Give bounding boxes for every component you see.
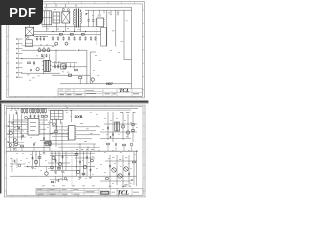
transistor Q2 [118, 174, 122, 178]
low cluster C19 [91, 78, 94, 81]
wire p2 mid h1 [40, 140, 69, 142]
bd labels [76, 148, 93, 151]
wire v3 to v4 [124, 59, 132, 61]
wire p2 top bus [7, 107, 139, 109]
wire bc h2 [48, 162, 70, 164]
p2 connector arrows [8, 125, 10, 143]
optocoupler U4 [61, 64, 66, 69]
electrolytic C20 [9, 132, 12, 135]
resistor network RN2 [51, 111, 64, 120]
U2 left fan [50, 126, 69, 136]
dashed drop x96 [96, 29, 98, 45]
transistor Q3 [124, 167, 128, 171]
U1 right fanout [40, 120, 52, 134]
rectifier diode D6 [43, 48, 46, 52]
cap C27 [112, 133, 114, 135]
wires bd verts [77, 151, 91, 176]
title block P1 text marks [60, 90, 140, 96]
wire low bus [60, 83, 132, 85]
wire under input row [42, 26, 84, 28]
title block P2 cell fills [37, 189, 72, 195]
wire bb v1 [32, 151, 34, 166]
page 2 sheet border outer [5, 105, 146, 197]
svg-text:DXB: DXB [75, 115, 83, 119]
electrolytic C32 [52, 157, 55, 160]
small marks bottom left [27, 75, 40, 81]
pre-bus comps [9, 142, 47, 151]
wire p2 left v1 [9, 114, 11, 147]
wires bc verts [52, 151, 66, 170]
res R18 [133, 161, 136, 163]
wire p2 left h2 [7, 147, 50, 149]
top row to bus drops [47, 23, 80, 32]
diode D12 [131, 179, 133, 181]
cap C23 [22, 135, 24, 137]
snubber C14 [33, 61, 35, 63]
wire low stub1 [79, 79, 81, 84]
page separator shadow [0, 100, 148, 101]
title block P1 outline [58, 89, 142, 97]
resistor bank RN1 [11, 108, 46, 119]
U1 left fanout [10, 120, 27, 134]
pre-bus right comps [107, 143, 133, 151]
cap C22 [18, 127, 20, 129]
p2 top right marks [120, 111, 136, 114]
ground symbols [13, 149, 125, 188]
wire bb v2 [35, 151, 37, 166]
dashed section divider [71, 150, 73, 186]
snubber capacitor C2 [92, 19, 94, 21]
value labels page 2 [10, 110, 138, 184]
wire vertical v1 [106, 10, 108, 46]
standby transformer T2 [42, 60, 51, 71]
relay K1 [25, 25, 34, 39]
wire p2 left v4 [21, 114, 23, 140]
cap C34 [55, 159, 57, 161]
wire xfmr top [21, 58, 44, 60]
cap row wire [34, 36, 48, 38]
electrolytic C37 [83, 165, 86, 168]
wire p2 r v5 [132, 112, 134, 142]
marks above title block [42, 185, 95, 188]
res R19 [106, 178, 109, 180]
electrolytic C36 [76, 170, 79, 173]
svg-text:TCL: TCL [119, 88, 130, 94]
rectifier diode D5 [38, 48, 41, 52]
wire p2 left h6 [8, 142, 24, 144]
wire bd h2 [10, 175, 137, 177]
wire p2 left h4 [8, 130, 24, 132]
bus2 hanging caps [52, 36, 97, 40]
wire mid row upper [22, 45, 57, 47]
page 2 border grid ticks [5, 105, 145, 197]
au labels [112, 157, 128, 185]
cap C26 [107, 127, 109, 129]
snubber wires [84, 10, 97, 27]
left page edge bar [0, 0, 1, 194]
page 1 sheet border inner [9, 4, 143, 97]
wire au h1 [105, 160, 137, 162]
wire net A [79, 49, 87, 51]
wire bus2 a [34, 31, 101, 33]
wire p2 mid bus [7, 150, 139, 152]
p2 center labels [80, 123, 93, 142]
wire top bus [44, 6, 132, 8]
wire left of DXB [71, 110, 73, 122]
connector J2 [46, 141, 51, 146]
wire vertical v3 [123, 10, 125, 59]
diode D11 [110, 136, 112, 138]
bank row labels [65, 107, 72, 111]
cap C40 [86, 156, 88, 158]
wire low stub2 [92, 81, 94, 84]
sheet note above title [123, 185, 131, 188]
sec drops [55, 63, 75, 68]
filter cap C13 [46, 54, 48, 56]
low cluster R4 [79, 77, 82, 79]
wire p2 mid bus b [50, 152, 95, 154]
snubber R2 [28, 62, 31, 64]
line filter FL1 [42, 11, 52, 25]
wires au verts [110, 152, 134, 185]
wire mid row [22, 49, 77, 51]
wire right rail [136, 150, 138, 186]
net arrow A [78, 49, 80, 51]
wire vertical v4 [131, 7, 133, 88]
RN2 drops [48, 120, 61, 131]
wire bc h3 [50, 170, 80, 172]
wire au h2 [100, 180, 131, 182]
main transformer T1 [73, 9, 81, 28]
snubber capacitor C1 [88, 19, 90, 21]
title block P2 rows [36, 191, 99, 193]
value labels page 1 [36, 8, 120, 76]
res R10 [49, 143, 52, 145]
cap C41 [90, 169, 92, 171]
lower left extras [10, 158, 26, 172]
wire vertical v5 [86, 50, 88, 84]
thermistor box [25, 36, 32, 47]
cap C35 [62, 156, 64, 158]
PWM IC U3 [96, 16, 105, 27]
sense R3 [75, 69, 78, 71]
wire p2 top bus b [48, 109, 131, 111]
title block P2 text marks [38, 189, 140, 194]
res R15 [58, 167, 61, 169]
startup diode D8 [30, 69, 32, 71]
caps under bank [30, 115, 48, 118]
res R14 [51, 167, 54, 169]
junction xfmr [43, 73, 44, 74]
wire bus2 b [34, 33, 101, 35]
bus2 inline resistors [59, 33, 84, 35]
PDF badge [0, 0, 43, 25]
title block P2 outline [36, 188, 143, 195]
cap C39 [79, 161, 81, 163]
electrolytic C15 [36, 68, 39, 71]
secondary cap C16 [54, 65, 56, 67]
wire sec1 [52, 66, 87, 68]
wire p2 mid v4 [61, 122, 63, 151]
wire sec2 [52, 74, 90, 76]
res R16 [75, 154, 78, 156]
page 1 sheet border outer [7, 2, 145, 98]
electrolytic C31 [34, 160, 37, 163]
cap C42 [109, 165, 111, 167]
svg-text:TCL: TCL [117, 190, 129, 197]
wire p2 mid h2 [40, 133, 69, 135]
page 1 border grid ticks [7, 2, 144, 98]
wire p2 r v4 [127, 114, 129, 138]
wire bb v3 [39, 151, 41, 166]
main IC U1 [27, 119, 41, 136]
cap row caps [36, 36, 45, 41]
transistor Q1 [112, 168, 116, 172]
U2 right fanout [76, 127, 100, 139]
logo box dark [100, 191, 109, 195]
electrolytic C44 [45, 172, 48, 175]
top bus stubs right [98, 10, 119, 15]
wire vertical v6 [89, 52, 91, 84]
electrolytic C25 [55, 130, 58, 133]
wire top bus stubs [47, 4, 77, 7]
bridge rectifier BD1 [62, 9, 70, 23]
wire right loop top [85, 9, 132, 11]
off-page connector arrows [16, 38, 22, 78]
cap C30 [32, 157, 34, 159]
svg-text:NO7: NO7 [106, 82, 113, 86]
wire v6 top [90, 51, 96, 53]
res R13 [38, 157, 41, 159]
res R11 [132, 124, 135, 126]
regulator U5 [68, 74, 71, 76]
wire p2 r v3 [122, 112, 124, 140]
p2 left junctions [9, 122, 22, 144]
electrolytic C38 [91, 159, 94, 162]
res R17 [82, 173, 85, 175]
res R12 [132, 130, 135, 132]
wire vertical v2 [115, 10, 117, 46]
secondary IC U2 [67, 126, 76, 141]
wire sec upper [52, 62, 77, 64]
bus2 junction dots [52, 31, 86, 32]
wire p2 mid v2 [49, 120, 51, 151]
wire bc h1 [50, 155, 75, 157]
page separator lower edge [0, 102, 148, 105]
cap C24 [43, 137, 45, 139]
diode D10 [11, 122, 13, 124]
wire p2 left h1 [8, 121, 27, 123]
diode row drops [44, 50, 57, 64]
p2 mid horizontals [48, 144, 100, 152]
node labels top right [108, 13, 128, 42]
electrolytic C10 [55, 42, 58, 45]
secondary cap C17 [57, 65, 59, 67]
wire p2 r v2 [112, 112, 114, 142]
title block P2 columns [48, 188, 132, 195]
lower mid extras [50, 174, 68, 183]
wire p2 mid v3 [55, 118, 57, 147]
wire p2 mid v1 [43, 118, 45, 151]
wire p2 r h2 [100, 131, 137, 133]
X-capacitor CX1 [53, 12, 60, 23]
wire p2 r h3 [100, 138, 131, 140]
clamp diode D1 [85, 13, 87, 15]
electrolytic C29 [126, 131, 129, 134]
drive transformer T3 [115, 122, 120, 131]
cap C43 [128, 173, 130, 175]
page 2 sheet border inner [7, 107, 144, 196]
wire p2 left h3 [8, 126, 22, 128]
wire p2 r v1 [107, 112, 109, 140]
wire loop U3 [101, 28, 107, 47]
electrolytic C11 [65, 42, 68, 45]
wire p2 left v3 [17, 114, 19, 144]
wire p2 r h1 [104, 123, 137, 125]
rectifier diode D7 [47, 48, 50, 52]
wire p2 left v2 [13, 114, 15, 147]
page separator dark band [0, 101, 148, 103]
wire xfmr bottom [21, 72, 60, 74]
wire C44 stub [46, 167, 48, 172]
electrolytic C28 [121, 125, 124, 128]
wire bd h1 [75, 157, 95, 159]
wire bb h1 [27, 166, 96, 168]
filter cap C12 [41, 54, 43, 56]
wire p2 left h5 [8, 136, 26, 138]
electrolytic C18 [63, 65, 67, 69]
title block P1 columns [66, 89, 132, 97]
electrolytic C21 [13, 139, 16, 142]
title block P1 rows [58, 91, 142, 93]
electrolytic C33 [58, 162, 61, 165]
